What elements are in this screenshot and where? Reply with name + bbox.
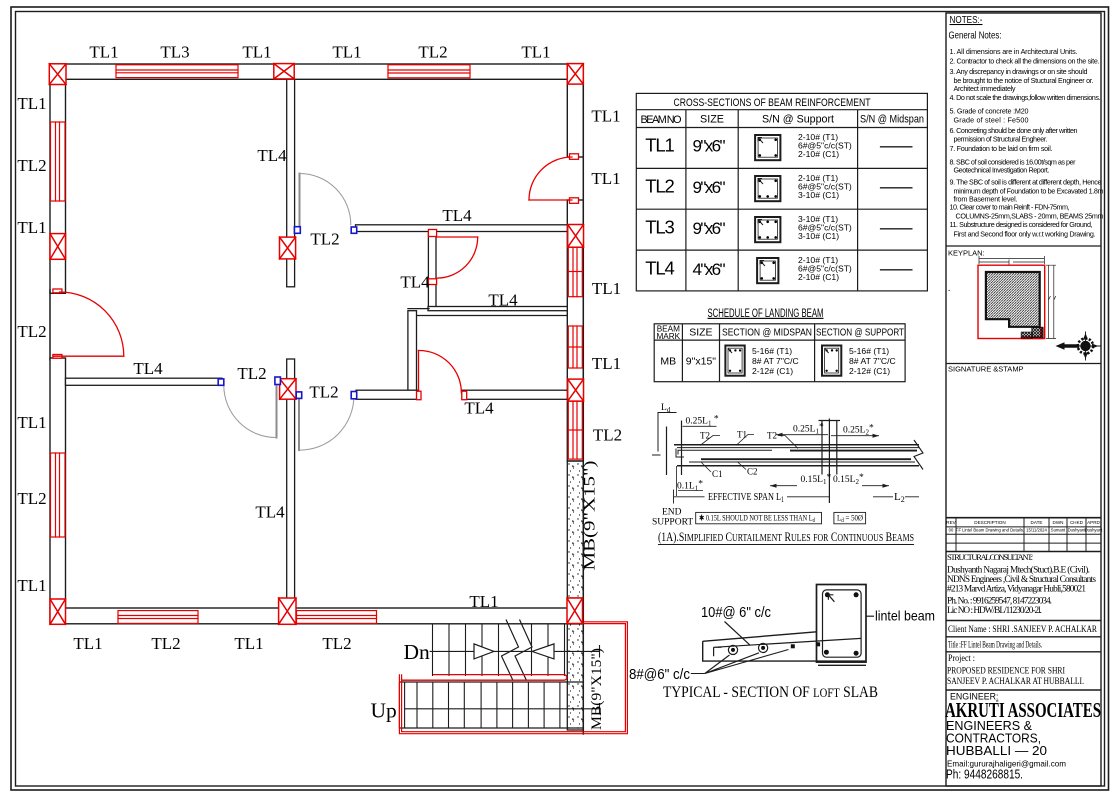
svg-text:TL4: TL4 xyxy=(645,258,675,279)
table1 reinforcement text row1 xyxy=(798,132,852,159)
svg-text:NDNS Engineers ,Civil & Struct: NDNS Engineers ,Civil & Structural Consu… xyxy=(947,575,1096,585)
column C11 right wall lower xyxy=(568,379,584,401)
svg-text:Ld: Ld xyxy=(661,403,671,414)
svg-text:S/N @ Midspan: S/N @ Midspan xyxy=(860,114,924,126)
svg-text:Lic NO : HDW/BL/11230/20-2l.: Lic NO : HDW/BL/11230/20-2l. xyxy=(947,606,1042,616)
svg-text:Dushyant: Dushyant xyxy=(1068,528,1087,533)
svg-text:TL1: TL1 xyxy=(592,354,621,373)
svg-text:TYPICAL - SECTION OF LOFT SLAB: TYPICAL - SECTION OF LOFT SLAB xyxy=(663,684,878,701)
svg-text:2-10# (C1): 2-10# (C1) xyxy=(798,272,839,282)
panel outer box xyxy=(946,13,1101,786)
svg-text:TL1: TL1 xyxy=(469,592,498,611)
svg-text:0.25L1*: 0.25L1* xyxy=(793,422,824,435)
loft slab outline xyxy=(703,632,817,661)
svg-text:2. Contractor to check all the: 2. Contractor to check all the dimension… xyxy=(950,56,1100,65)
door wall-D swing arc xyxy=(437,237,478,278)
gray door wall-A-top swing arc xyxy=(300,174,351,225)
wall left exterior lower segment xyxy=(50,358,66,608)
svg-text:SECTION @ MIDSPAN: SECTION @ MIDSPAN xyxy=(722,327,812,339)
curtailment mid support centerline xyxy=(828,419,830,504)
lintel TL2 hatch left wall lower xyxy=(51,453,66,537)
table1 stirrup sketch row2 xyxy=(755,176,780,201)
svg-text:First and Second floor only w.: First and Second floor only w.r.t workin… xyxy=(954,229,1096,238)
svg-text:MB(9"X15"): MB(9"X15") xyxy=(589,648,605,730)
interior wall C right segment y390 xyxy=(462,390,567,399)
svg-text:TL3: TL3 xyxy=(645,217,675,238)
svg-text:TL1: TL1 xyxy=(592,279,621,298)
svg-text:REV: REV xyxy=(946,520,956,525)
svg-text:SIZE: SIZE xyxy=(689,327,712,339)
svg-text:4. Do not scale the drawings,f: 4. Do not scale the drawings,follow writ… xyxy=(950,93,1101,102)
blue cap wall F right end xyxy=(218,379,224,385)
wall left exterior upper segment xyxy=(50,64,66,293)
interior wall C left segment y390 xyxy=(356,390,419,399)
svg-text:Dn: Dn xyxy=(404,640,431,664)
leaders 8# xyxy=(691,650,789,674)
svg-text:DATE: DATE xyxy=(1031,520,1043,525)
svg-text:SCHEDULE OF LANDING BEAM: SCHEDULE OF LANDING BEAM xyxy=(708,308,824,320)
column C1 top-left xyxy=(49,64,66,85)
table1 reinforcement text row4 xyxy=(798,255,852,282)
svg-text:8# AT 7"C/C: 8# AT 7"C/C xyxy=(849,356,896,366)
svg-text:5-16# (T1): 5-16# (T1) xyxy=(849,346,889,356)
slab dist bar dot 1 xyxy=(791,644,795,648)
wall left outer line across door xyxy=(49,290,51,360)
wall right exterior above door xyxy=(567,64,583,157)
door right-wall leaf xyxy=(529,199,572,201)
leader 10# xyxy=(725,622,751,646)
gray door wall-A-top leaf xyxy=(299,174,301,227)
table2 reinforcement text midspan xyxy=(752,346,799,376)
gray double-door swing arc 1 xyxy=(224,385,277,437)
table1 cross-sections of beam reinforcement xyxy=(636,93,927,291)
svg-text:TL4: TL4 xyxy=(442,206,472,225)
masonry beam MB hatched wall lower xyxy=(567,624,583,730)
note box 0.15L xyxy=(696,512,822,523)
door left-wall swing arc xyxy=(60,292,124,356)
svg-text:Dushyant: Dushyant xyxy=(1085,528,1104,533)
door wall-C leaf xyxy=(418,351,420,392)
notes list xyxy=(950,47,1104,238)
rev table header xyxy=(946,520,1100,525)
table1 midspan dashes xyxy=(880,147,913,270)
svg-text:0.25L1 *: 0.25L1 * xyxy=(686,414,719,427)
curtailment left anchorage hook xyxy=(676,449,684,458)
svg-text:Dushyanth Nagaraj Mtech(Stuct: Dushyanth Nagaraj Mtech(Stuct).B.E (Civi… xyxy=(947,565,1090,576)
keyplan separator xyxy=(946,245,1101,247)
door right-wall jamb caps xyxy=(570,154,579,204)
svg-text:9"x6": 9"x6" xyxy=(693,178,726,197)
column C9 center wall A upper xyxy=(280,237,296,259)
curtailment left end support xyxy=(667,421,682,476)
blue cap right of column C8 xyxy=(296,392,302,399)
column C3 top-right xyxy=(567,64,583,85)
door wall-D jamb caps xyxy=(428,230,436,285)
svg-text:9"x6": 9"x6" xyxy=(693,219,726,238)
svg-text:Client Name : SHRI .SANJEEV P.: Client Name : SHRI .SANJEEV P. ACHALKAR xyxy=(948,624,1097,635)
table2 data MB row xyxy=(660,356,716,368)
gray double-door leaf 2 xyxy=(298,398,300,450)
column C10 right wall upper xyxy=(568,225,584,248)
svg-text:8#@6" c/c: 8#@6" c/c xyxy=(629,667,690,683)
svg-text:TL2: TL2 xyxy=(17,322,46,341)
svg-text:Grade of steel : Fe500: Grade of steel : Fe500 xyxy=(954,116,1029,125)
blue cap wall B left end xyxy=(351,227,357,233)
table1 stirrup sketch row3 xyxy=(755,217,780,242)
svg-text:DWN: DWN xyxy=(1053,520,1064,525)
landing beam MB red outline xyxy=(402,675,567,681)
rev table data row xyxy=(949,528,1104,533)
blue cap left of column C8 xyxy=(275,377,281,385)
svg-text:TL2: TL2 xyxy=(645,176,675,197)
lintel hatch right wall seg1 xyxy=(568,247,582,297)
table2 header xyxy=(656,325,680,342)
column C4 left-middle xyxy=(50,234,66,260)
svg-text:TL2: TL2 xyxy=(309,383,338,402)
svg-text:PROPOSED RESIDENCE FOR SHRI: PROPOSED RESIDENCE FOR SHRI xyxy=(947,666,1065,677)
svg-text:3-10# (C1): 3-10# (C1) xyxy=(798,190,839,200)
rev table xyxy=(946,518,1101,552)
door left-wall jamb caps xyxy=(53,289,62,358)
svg-text:TL2: TL2 xyxy=(418,43,447,62)
table1 header row xyxy=(641,114,925,127)
svg-text:00: 00 xyxy=(949,528,954,533)
svg-text:SUPPORT: SUPPORT xyxy=(652,518,693,528)
stair break line 2 xyxy=(515,620,532,681)
slab top rebar line slanted xyxy=(714,638,862,656)
svg-text:Ph: 9448268815.: Ph: 9448268815. xyxy=(946,767,1023,782)
svg-text:TL1: TL1 xyxy=(234,634,263,653)
svg-text:General Notes:: General Notes: xyxy=(949,30,1002,42)
svg-text:HUBBALLI — 20: HUBBALLI — 20 xyxy=(946,743,1047,758)
svg-text:2-12# (C1): 2-12# (C1) xyxy=(752,366,793,376)
svg-text:✱ 0.15L SHOULD NOT BE LESS TH: ✱ 0.15L SHOULD NOT BE LESS THAN Ld xyxy=(699,514,815,525)
Dn arrowhead right-pointing xyxy=(474,644,494,659)
svg-text:SIZE: SIZE xyxy=(700,114,724,126)
stair red boundary inner xyxy=(402,624,626,732)
svg-text:MB: MB xyxy=(660,356,676,368)
curtailment T1 bar xyxy=(677,447,919,449)
svg-text:Ld = 50Ø: Ld = 50Ø xyxy=(837,514,863,525)
door left-wall leaf xyxy=(54,355,124,357)
table1 reinforcement text row2 xyxy=(798,173,852,200)
svg-text:0.15L1*: 0.15L1* xyxy=(801,473,832,486)
Dn arrow end tick xyxy=(599,645,601,658)
interior wall E horizontal TL4 y307 xyxy=(428,307,567,311)
lintel TL2 hatch bottom wall right xyxy=(297,611,377,624)
curtailment right break symbol xyxy=(914,440,923,470)
Dn arrowhead left-pointing xyxy=(532,644,554,659)
title separator xyxy=(946,636,1101,638)
keyplan red thick notch xyxy=(1021,327,1042,338)
svg-text:5. Grade of concrete :M20: 5. Grade of concrete :M20 xyxy=(950,106,1029,115)
curtailment C2 bar xyxy=(701,458,911,460)
svg-text:(1A).SIMPLIFIED CURTAILMENT RU: (1A).SIMPLIFIED CURTAILMENT RULES FOR CO… xyxy=(658,529,914,544)
note box Ld=50 xyxy=(834,512,866,523)
svg-text:Up: Up xyxy=(371,699,397,723)
svg-text:2-12# (C1): 2-12# (C1) xyxy=(849,366,890,376)
svg-text:Title :FF Lintel Beam Drawing: Title :FF Lintel Beam Drawing and Detail… xyxy=(948,640,1042,650)
svg-text:.: . xyxy=(948,283,950,293)
svg-text:TL1: TL1 xyxy=(17,218,46,237)
interior wall A upper (center vertical) xyxy=(287,79,295,286)
svg-text:15/11/2024: 15/11/2024 xyxy=(1026,528,1047,533)
svg-text:9"x15": 9"x15" xyxy=(686,356,716,368)
svg-text:S/N @ Support: S/N @ Support xyxy=(762,114,834,126)
lintel TL3 hatch on top wall xyxy=(116,65,238,78)
svg-text:TL1: TL1 xyxy=(645,135,675,156)
lintel hatch right wall seg2 xyxy=(568,326,582,368)
plan labels xyxy=(17,43,622,654)
lower flight outline xyxy=(399,682,583,728)
svg-text:TL4: TL4 xyxy=(255,503,285,522)
effective span dimension line xyxy=(674,490,920,504)
interior wall A lower (center vertical) xyxy=(287,359,295,608)
keyplan small block 1 xyxy=(1032,328,1043,338)
column C8 center wall A at door xyxy=(280,379,296,400)
svg-text:TL2: TL2 xyxy=(310,230,339,249)
svg-text:3-10# (C1): 3-10# (C1) xyxy=(798,231,839,241)
loft slab: lintel beam outer box xyxy=(817,585,867,663)
svg-text:TL2: TL2 xyxy=(237,364,266,383)
curtailment T2 bar right xyxy=(790,450,917,452)
wall bottom exterior xyxy=(50,608,583,624)
keyplan right dimension lines xyxy=(1046,265,1056,338)
engineer separator xyxy=(946,689,1101,691)
room left wall vertical pair xyxy=(408,311,417,391)
interior wall B horizontal y225 xyxy=(356,225,568,232)
upper flight risers xyxy=(433,624,565,676)
structural consultant block xyxy=(947,552,1096,616)
lower flight risers xyxy=(405,682,560,728)
svg-text:TL2: TL2 xyxy=(322,634,351,653)
interior wall D vertical x428 xyxy=(428,233,436,309)
svg-text:TL1: TL1 xyxy=(17,94,46,113)
svg-text:9. The SBC of soil is differen: 9. The SBC of soil is different at diffe… xyxy=(950,177,1102,186)
svg-text:T1: T1 xyxy=(737,430,747,440)
svg-text:TL4: TL4 xyxy=(133,359,163,378)
svg-text:APRD: APRD xyxy=(1087,520,1100,525)
svg-text:CHKD: CHKD xyxy=(1070,520,1084,525)
svg-text:EFFECTIVE SPAN L1: EFFECTIVE SPAN L1 xyxy=(708,491,784,504)
svg-text:TL2: TL2 xyxy=(17,489,46,508)
table1 stirrup sketch row4 xyxy=(757,258,778,283)
svg-text:DESCRIPTION: DESCRIPTION xyxy=(974,520,1005,525)
curtailment beam top edge xyxy=(674,444,919,446)
svg-text:1. All dimensions are in Archi: 1. All dimensions are in Architectural U… xyxy=(950,47,1078,56)
column C6 bottom-center xyxy=(279,598,296,624)
svg-text:TL4: TL4 xyxy=(488,291,518,310)
svg-text:TL4: TL4 xyxy=(400,273,430,292)
svg-text:L2: L2 xyxy=(894,491,905,504)
loft slab: lintel beam stirrup xyxy=(823,590,862,657)
svg-text:TL1: TL1 xyxy=(73,634,102,653)
door wall-D leaf xyxy=(437,236,478,238)
lintel beam corner bars xyxy=(825,592,830,597)
door wall-C swing arc xyxy=(419,350,462,392)
slab bar circle 2 xyxy=(759,643,768,652)
keyplan small block 2 xyxy=(1021,332,1032,338)
svg-text:0.25L2*: 0.25L2* xyxy=(843,423,874,436)
svg-text:Geotechnical Investigation Rep: Geotechnical Investigation Report. xyxy=(954,165,1050,174)
svg-text:TL4: TL4 xyxy=(464,399,494,418)
svg-text:TL1: TL1 xyxy=(591,107,620,126)
curtailment bottom edge xyxy=(677,465,919,467)
svg-text:7. Foundation to be laid on fi: 7. Foundation to be laid on firm soil. xyxy=(950,144,1053,153)
svg-text:10#@ 6" c/c: 10#@ 6" c/c xyxy=(701,605,771,621)
table2 stirrup midspan xyxy=(725,346,744,376)
Dn arrow line xyxy=(430,650,600,652)
svg-text:11. Substructure designed is c: 11. Substructure designed is considered … xyxy=(950,220,1093,229)
svg-text:5-16# (T1): 5-16# (T1) xyxy=(752,346,792,356)
svg-text:SIGNATURE &STAMP: SIGNATURE &STAMP xyxy=(948,365,1024,374)
room inner top edge line y315 xyxy=(417,315,568,317)
slab bar circle 1 xyxy=(728,645,737,654)
svg-text:CROSS-SECTIONS OF BEAM REINFOR: CROSS-SECTIONS OF BEAM REINFORCEMENT xyxy=(674,97,871,109)
table2 reinforcement text support xyxy=(849,346,896,376)
lintel hatch right wall seg3 xyxy=(568,401,582,459)
table1 size column xyxy=(693,137,726,280)
svg-text:MB(9"X15"): MB(9"X15") xyxy=(582,461,599,571)
svg-text:SECTION @ SUPPORT: SECTION @ SUPPORT xyxy=(816,327,904,339)
curtailment T2 bar left xyxy=(678,450,772,454)
svg-text:TL2: TL2 xyxy=(17,156,46,175)
svg-text:SANJEEV P. ACHALKAR AT HUBBALL: SANJEEV P. ACHALKAR AT HUBBALLI. xyxy=(947,676,1084,687)
column C2 top-center xyxy=(274,64,294,79)
door wall-C jamb caps xyxy=(417,391,467,400)
wall right outer edge line xyxy=(582,64,584,734)
svg-text:lintel beam: lintel beam xyxy=(875,608,935,624)
svg-text:C1: C1 xyxy=(712,469,723,479)
column C5 bottom-left xyxy=(50,599,66,624)
masonry beam MB hatched wall upper xyxy=(567,461,583,598)
svg-text:END: END xyxy=(662,508,682,518)
stair break line 1 xyxy=(502,620,519,681)
svg-text:C2: C2 xyxy=(747,467,758,477)
lintel TL2 hatch on top wall xyxy=(388,65,470,78)
lintel beam diag tick xyxy=(828,595,834,602)
slab bottom line under beam xyxy=(817,660,867,662)
stair red boundary outer xyxy=(399,622,627,734)
table2 stirrup support xyxy=(822,346,841,376)
svg-text:NOTES:-: NOTES:- xyxy=(950,14,983,26)
svg-text:FF Lintel Beam Drawing and Det: FF Lintel Beam Drawing and Details. xyxy=(956,528,1024,533)
svg-text:9"x6": 9"x6" xyxy=(693,137,726,156)
svg-text:TL1: TL1 xyxy=(17,576,46,595)
svg-text:4"x6": 4"x6" xyxy=(693,260,726,279)
svg-text:TL2: TL2 xyxy=(151,634,180,653)
svg-text:TL2: TL2 xyxy=(593,426,622,445)
svg-text:2-10# (C1): 2-10# (C1) xyxy=(798,149,839,159)
svg-text:TL1: TL1 xyxy=(17,413,46,432)
svg-text:TL1: TL1 xyxy=(521,43,550,62)
wall top exterior xyxy=(50,64,583,79)
svg-text:T2: T2 xyxy=(767,431,777,441)
north compass rose xyxy=(1056,332,1101,361)
lintel TL2 hatch left wall upper xyxy=(51,122,66,201)
keyplan red boundary xyxy=(978,265,1045,338)
curtailment Ld bracket xyxy=(652,413,677,456)
svg-text:permission of Structural Enghe: permission of Structural Engheer. xyxy=(954,135,1048,144)
svg-text:TL4: TL4 xyxy=(257,146,287,165)
keyplan top dimension lines xyxy=(979,256,1045,265)
svg-text:Project :: Project : xyxy=(948,653,975,663)
svg-text:#213 Marvd Artiza, Vidyanagar: #213 Marvd Artiza, Vidyanagar Hubli,5800… xyxy=(947,585,1086,595)
wall E left single line xyxy=(408,308,429,310)
svg-text:Sumant: Sumant xyxy=(1051,528,1066,533)
interior wall F horizontal TL4 y378 xyxy=(66,378,223,385)
curtailment mid support box xyxy=(819,421,841,475)
svg-text:8# AT 7"C/C: 8# AT 7"C/C xyxy=(752,356,799,366)
table2 grid xyxy=(654,324,905,382)
wall right exterior below door xyxy=(567,200,583,461)
svg-text:STRUCTURAL CONSULTANT:: STRUCTURAL CONSULTANT: xyxy=(947,552,1033,562)
table1 reinforcement text row3 xyxy=(798,214,852,241)
svg-text:BEAM NO: BEAM NO xyxy=(641,114,682,126)
project separator xyxy=(946,651,1101,653)
curtailment C1 bar xyxy=(689,461,915,463)
svg-text:TL1: TL1 xyxy=(332,43,361,62)
table1 beam names column xyxy=(645,135,675,279)
keyplan hatched building block xyxy=(986,272,1040,327)
svg-text:TL1: TL1 xyxy=(242,43,271,62)
slab dist bar dot 2 xyxy=(816,642,820,646)
client separator xyxy=(946,620,1101,622)
table1 stirrup sketch row1 xyxy=(755,135,780,160)
lintel TL2 hatch bottom wall left xyxy=(118,611,198,624)
column C7 bottom-right xyxy=(567,598,583,624)
compass west arrow xyxy=(1056,342,1078,350)
svg-text:3. Any discrepancy in drawings: 3. Any discrepancy in drawings or on sit… xyxy=(950,67,1088,76)
label lintel beam xyxy=(866,615,874,617)
Up arrow end tick xyxy=(599,703,601,715)
signature separator xyxy=(946,363,1101,365)
Up arrow line xyxy=(405,708,600,710)
blue cap wall A door lower xyxy=(294,227,300,234)
svg-text:TL1: TL1 xyxy=(591,169,620,188)
svg-text:0.15L2*: 0.15L2* xyxy=(833,473,864,486)
svg-text:TL3: TL3 xyxy=(160,43,189,62)
door right-wall swing arc xyxy=(529,157,572,200)
svg-text:MARK: MARK xyxy=(656,332,680,341)
gray double-door swing arc 2 xyxy=(299,396,354,450)
blue cap wall C left end xyxy=(351,392,357,399)
svg-text:TL1: TL1 xyxy=(89,43,118,62)
svg-text:Ph. No. : 9916259547, 81472230: Ph. No. : 9916259547, 8147223034. xyxy=(947,597,1052,607)
svg-text:10. Clear cover to main Reinft: 10. Clear cover to main Reinft - FDN-75m… xyxy=(950,203,1070,212)
gray double-door leaf 1 xyxy=(276,385,278,437)
line under beam box xyxy=(818,664,866,666)
